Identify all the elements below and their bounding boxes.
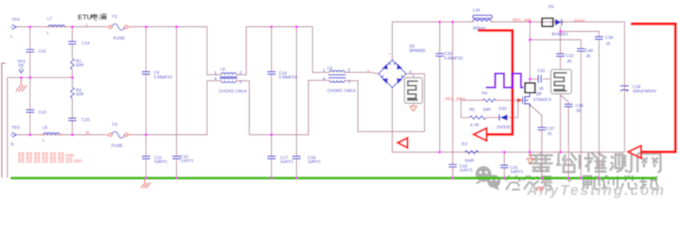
diode D9 package box: [542, 18, 553, 26]
watermark char 芯: [621, 176, 638, 190]
watermark text 公众号: [506, 176, 659, 191]
svg-text:J5: J5: [547, 131, 552, 136]
capacitor C12: [26, 50, 34, 53]
svg-text:J5: J5: [606, 41, 611, 46]
svg-text:BA65SV: BA65SV: [552, 31, 568, 36]
svg-text:BR605D: BR605D: [409, 48, 425, 53]
wire C37 down to earth: [541, 131, 543, 178]
svg-text:C15: C15: [82, 117, 90, 122]
terminal TP3: [19, 68, 24, 73]
svg-text:PFC_SW: PFC_SW: [513, 18, 532, 23]
WIRES-GROUP: [2, 22, 625, 178]
svg-text:L7: L7: [47, 16, 52, 21]
capacitor C38: [564, 104, 572, 107]
watermark big char 检: [584, 153, 607, 173]
power arrow below HS1: [410, 103, 417, 111]
ANNOTATIONS: [398, 24, 676, 158]
red note line2 共模接收电阻为: [18, 158, 72, 163]
svg-text:TP4: TP4: [12, 17, 20, 22]
capacitor C13: [26, 110, 34, 113]
capacitor C15: [68, 118, 76, 121]
svg-text:L10: L10: [473, 7, 481, 12]
capacitor C9: [142, 72, 150, 75]
svg-text:F2: F2: [112, 14, 118, 19]
capacitor C17: [267, 156, 275, 159]
svg-text:34R: 34R: [483, 107, 491, 112]
wire L rail after fuse F2: [131, 27, 220, 75]
wire Q8 drain column from PFC_SW rail: [529, 22, 531, 83]
capacitor C16: [267, 72, 275, 75]
power arrow below Q8 source junction: [527, 152, 534, 163]
svg-text:D10: D10: [499, 106, 507, 111]
wire PE line: [7, 77, 72, 79]
watermark char 城: [640, 177, 659, 190]
red mini arrow at Q8 gate: [517, 98, 522, 103]
svg-text:J5: J5: [586, 54, 591, 59]
wire C12 C13 column: [29, 27, 31, 49]
svg-text:m: m: [536, 183, 544, 193]
wire C41 column: [503, 152, 505, 165]
red note line1 差模接收电阻: [18, 152, 64, 157]
heatsink HS2: [551, 70, 572, 94]
watermark big char 测: [610, 153, 632, 172]
wire C22 to heatsink top: [559, 57, 561, 70]
svg-text:0.68uFX2: 0.68uFX2: [279, 75, 298, 80]
svg-text:L8: L8: [42, 125, 47, 130]
wire C39 down to earth: [598, 40, 600, 178]
wire C16 C17 column: [271, 27, 273, 71]
wire C9 C11 column: [145, 27, 147, 71]
svg-text:C40: C40: [585, 48, 593, 53]
capacitor C22: [556, 54, 564, 57]
svg-text:L6: L6: [220, 66, 225, 71]
choke CM14 windings: [220, 73, 237, 83]
svg-text:R4: R4: [482, 91, 488, 96]
svg-text:C21: C21: [537, 68, 545, 73]
earth bus green line: [11, 177, 658, 180]
watermark char 创: [602, 176, 618, 190]
resistor R3: [465, 151, 479, 154]
wire C14 R1 R2 C15 column: [71, 27, 73, 41]
wire C18 column: [296, 27, 298, 156]
wechat icon watermark: [476, 166, 501, 190]
svg-text:FUSE: FUSE: [113, 36, 125, 41]
resistor R4: [483, 99, 496, 102]
svg-text:50R: 50R: [76, 92, 84, 97]
wire C10 column: [176, 27, 178, 156]
mosfet Q8: [523, 93, 530, 107]
svg-text:C13: C13: [38, 109, 46, 114]
wire N rail after fuse F3 up to choke CM14 pin4: [131, 81, 220, 135]
wire DC top rail after L10 to VAAC corner: [491, 22, 624, 152]
svg-text:AnyTesting.com: AnyTesting.com: [526, 183, 666, 199]
wire C21 branch: [530, 78, 538, 80]
svg-text:47N60C3: 47N60C3: [533, 97, 552, 102]
wire C20 column: [439, 22, 441, 53]
svg-text:J5: J5: [539, 86, 544, 91]
capacitor C41: [500, 165, 508, 168]
wire snubber y40 to C40: [530, 40, 581, 48]
capacitor C18: [292, 156, 300, 159]
bridge rectifier D6: [379, 60, 407, 88]
fuse F2: [109, 24, 128, 30]
wire gate drive loop: [461, 100, 470, 117]
svg-text:VAAC: VAAC: [574, 18, 586, 23]
svg-text:D9: D9: [548, 4, 554, 9]
pin stubs (salmon): [30, 22, 625, 170]
capacitor C40: [577, 49, 585, 52]
wire heatsink1 top stem: [412, 74, 414, 78]
terminal TP2: [11, 132, 17, 137]
svg-text:330uFW50V: 330uFW50V: [633, 89, 657, 94]
wire Q8 source down to return rail: [529, 105, 531, 153]
title char 源: [99, 14, 107, 20]
resistor R5: [470, 116, 487, 119]
svg-text:4.7R: 4.7R: [470, 123, 479, 128]
wire N rail left: [16, 134, 105, 136]
svg-text:C12: C12: [38, 49, 46, 54]
watermark separator dot: [567, 178, 571, 182]
purple gate waveform: [486, 74, 524, 88]
watermark big char 网: [638, 154, 661, 173]
wire choke CM14 pin2 up to L rail: [238, 27, 329, 75]
svg-text:1uNY1: 1uNY1: [460, 167, 474, 172]
watermark big char 峪: [556, 153, 580, 172]
svg-text:200uH: 200uH: [473, 26, 486, 31]
svg-text:50R: 50R: [76, 63, 84, 68]
wire bridge bottom corner to return rail: [392, 88, 624, 153]
svg-text:J5: J5: [567, 59, 572, 64]
red annotation arrow to gate drive area: [474, 30, 513, 140]
red annotation arrow near bridge: [398, 138, 408, 148]
resistor R2: [71, 87, 75, 98]
wire L rail left: [16, 26, 105, 28]
earth symbol below green bus at C11: [141, 179, 151, 188]
svg-text:1uNY1: 1uNY1: [280, 159, 294, 164]
svg-text:1uNY1: 1uNY1: [308, 159, 322, 164]
inductor L7: [48, 25, 64, 27]
svg-text:1uNY1: 1uNY1: [154, 159, 168, 164]
svg-text:F3: F3: [112, 122, 118, 127]
wire D9 cathode down and across to C39: [559, 26, 561, 53]
svg-text:PFC_DRV: PFC_DRV: [445, 97, 465, 102]
svg-text:DIODE: DIODE: [497, 125, 511, 130]
wire choke2 pin2 to bridge left corner: [346, 72, 379, 73]
ground earth TP3: [16, 78, 27, 92]
capacitor C14: [68, 42, 76, 45]
wire C42 column: [452, 22, 454, 164]
svg-text:25R: 25R: [73, 159, 82, 164]
WATERMARK (drawn late but semi-transparent): [476, 153, 666, 200]
svg-text:C14: C14: [82, 41, 90, 46]
wire PE down to earth bus: [6, 78, 8, 178]
watermark big char 嘉: [529, 153, 661, 173]
svg-text:0.68uFX2: 0.68uFX2: [444, 55, 463, 60]
capacitor C19 electrolytic: [620, 86, 629, 92]
diode D9: [555, 19, 562, 26]
capacitor C10: [172, 156, 180, 159]
svg-text:FUSE: FUSE: [111, 143, 123, 148]
svg-text:+: +: [389, 52, 391, 56]
svg-text:50R: 50R: [66, 153, 75, 158]
svg-text:L9: L9: [327, 66, 332, 71]
svg-text:PE: PE: [18, 63, 24, 68]
svg-text:R3: R3: [462, 141, 468, 146]
svg-text:C39: C39: [605, 35, 613, 40]
watermark char 融: [582, 176, 599, 190]
svg-text:CHOKE CM14: CHOKE CM14: [327, 88, 356, 93]
terminal TP4: [11, 25, 17, 30]
capacitor C39: [595, 37, 603, 40]
choke CM13 windings: [328, 71, 345, 83]
red annotation arrow at right edge to output: [628, 24, 675, 158]
diode D10: [499, 114, 507, 120]
svg-text:5mR: 5mR: [465, 158, 474, 163]
wire bridge top corner to DC top rail: [392, 22, 473, 60]
title char 电: [92, 14, 107, 20]
wire heatsink2 bottom to return rail: [559, 94, 561, 152]
svg-text:TP2: TP2: [12, 125, 20, 130]
inductor L10: [473, 15, 492, 22]
svg-text:ETU: ETU: [78, 15, 92, 22]
svg-text:1uNY1: 1uNY1: [510, 169, 524, 174]
svg-text:J5: J5: [576, 108, 581, 113]
capacitor C37: [538, 127, 546, 129]
fuse F3: [109, 132, 128, 138]
svg-text:N: N: [86, 130, 89, 135]
svg-text:0.68uFX2: 0.68uFX2: [154, 74, 173, 79]
svg-text:Q8: Q8: [536, 91, 542, 96]
wire left sheet stub: [2, 63, 6, 178]
wire C38 down to earth: [568, 107, 570, 177]
wire C40 down to earth: [580, 52, 582, 178]
capacitor C11: [142, 156, 150, 159]
svg-text:R5: R5: [469, 107, 475, 112]
wire Q8 source to C37 diagonal: [530, 105, 542, 127]
wire bridge right corner loop to choke2 pin3: [346, 74, 425, 132]
inductor L8: [43, 133, 59, 135]
resistor R1: [71, 58, 75, 69]
capacitor C20: [436, 54, 444, 57]
svg-text:1uNY1: 1uNY1: [180, 158, 194, 163]
heatsink HS1: [404, 78, 422, 104]
wire heatsink2 to C38 diagonal: [560, 95, 568, 104]
svg-text:C22: C22: [566, 53, 574, 58]
mosfet Q8 package box: [525, 83, 535, 93]
wire choke CM14 pin3 down and N rail to choke2 pin4: [238, 80, 329, 134]
capacitor C42: [449, 165, 457, 168]
capacitor C21: [538, 75, 541, 83]
svg-text:CHOKE CM14: CHOKE CM14: [219, 88, 248, 93]
svg-text:N: N: [11, 142, 14, 147]
